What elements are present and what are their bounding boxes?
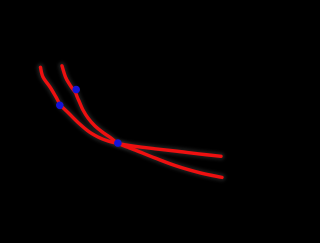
marker dot on curve B	[72, 86, 80, 94]
compression halo around curve A	[41, 67, 222, 156]
marker dot on curve A	[56, 102, 64, 110]
compression halo around curve B	[62, 66, 222, 178]
chart canvas	[0, 0, 250, 243]
curve B (right red decay curve, lower branch after crossing)	[62, 66, 222, 178]
marker dot at crossing point	[114, 139, 122, 147]
curve A (left red decay curve, upper branch after crossing)	[41, 67, 222, 156]
